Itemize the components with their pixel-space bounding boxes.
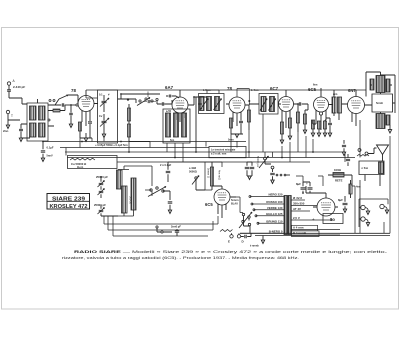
- hatched resistor right: [349, 184, 352, 194]
- svg-text:78: 78: [71, 88, 76, 93]
- V4 ground row: [280, 140, 283, 143]
- coupling cap to 6C5: [299, 102, 300, 105]
- cap column right 2: [346, 159, 350, 160]
- svg-text:25000 pF: 25000 pF: [96, 175, 108, 179]
- speaker wires: [366, 72, 395, 114]
- switch S3: [195, 177, 197, 179]
- IF T1 middle winding: [207, 97, 212, 111]
- V3 pin wires: [233, 105, 249, 126]
- svg-text:2-440 pF: 2-440 pF: [13, 85, 25, 89]
- svg-text:BRUNO 110: BRUNO 110: [266, 219, 282, 223]
- V5 cathode resistor: [311, 120, 314, 129]
- tube V6 6N7: [348, 97, 365, 114]
- tube V2 6A7: [172, 97, 188, 113]
- IF T1 trimmer arrows: [200, 99, 208, 111]
- svg-text:AT 4V: AT 4V: [293, 207, 301, 211]
- svg-text:6C5: 6C5: [205, 202, 213, 207]
- model label box: [47, 194, 90, 210]
- grid terminal on V1: [76, 104, 78, 106]
- svg-text:2nn0 pF: 2nn0 pF: [171, 225, 181, 229]
- cap column right 1: [342, 145, 346, 146]
- screen resistor R5: [247, 110, 250, 122]
- svg-text:Cv: Cv: [99, 114, 103, 118]
- IF T2 trimmer arrows: [260, 99, 267, 111]
- V7 wires: [212, 186, 236, 218]
- junction blob: [127, 98, 129, 100]
- svg-text:a-50: a-50: [166, 110, 172, 113]
- svg-text:6C5: 6C5: [308, 87, 317, 92]
- band coil with core: [131, 178, 136, 210]
- capacitor to ground mid: [168, 202, 173, 203]
- tube V5 6C5: [314, 97, 329, 112]
- voltage selector contacts: [242, 213, 244, 215]
- wire bus to 6A7: [118, 94, 161, 103]
- terminal E: [230, 235, 233, 238]
- svg-text:5nnn: 5nnn: [228, 139, 234, 142]
- return wire U3: [113, 216, 208, 236]
- band switch S1 arrow: [59, 95, 68, 99]
- filter caps pair: [245, 167, 250, 168]
- svg-text:+: +: [306, 182, 308, 186]
- speaker bottom winding: [376, 114, 385, 129]
- wire gang to tube: [86, 96, 98, 99]
- speaker lug lower-right: [386, 115, 390, 125]
- right risers: [352, 158, 390, 234]
- svg-text:100Ω: 100Ω: [334, 168, 342, 172]
- tube V8 80 rectifier: [317, 198, 335, 216]
- V5 second resistor: [317, 121, 320, 129]
- V1 cathode resistor: [78, 122, 81, 131]
- V5 pin wires: [316, 88, 333, 130]
- coil block outline: [27, 103, 48, 141]
- AVC bus line 1: [43, 141, 246, 143]
- B+ bus line 3: [65, 151, 345, 153]
- capacitor C10: [166, 171, 171, 172]
- terminal D: [237, 235, 240, 238]
- IF T1 secondary winding: [215, 97, 220, 111]
- output transformer side lug left: [370, 79, 374, 90]
- output transformer side lug right: [386, 79, 390, 92]
- trimmer capacitor lower: [99, 210, 104, 211]
- V1 ground: [84, 138, 87, 141]
- svg-text:T: T: [11, 114, 13, 118]
- svg-text:+: +: [312, 217, 315, 222]
- V5 cathode cap: [328, 123, 332, 124]
- svg-text:RADIO SIARE — Modelli « Siar: RADIO SIARE — Modelli « Siare 239 » e « …: [74, 249, 388, 254]
- V5 grid leak resistor: [303, 114, 306, 124]
- svg-text:5000Ω: 5000Ω: [189, 170, 197, 174]
- svg-text:0.1μF: 0.1μF: [47, 146, 54, 150]
- svg-text:6N7: 6N7: [348, 88, 356, 93]
- svg-text:a 2 n alt. nnn: a 2 n alt. nnn: [211, 153, 227, 156]
- band switch arm: [150, 189, 152, 191]
- bus vertical taps: [66, 114, 390, 162]
- V4 avc resistor: [288, 118, 291, 128]
- svg-text:6A7: 6A7: [165, 85, 174, 90]
- V3 cathode cap: [239, 121, 243, 122]
- interruttore zigzag: [220, 230, 233, 232]
- pickup box hatch: [379, 162, 384, 174]
- svg-text:n 5nn: n 5nn: [362, 167, 369, 170]
- V1 cathode bypass cap: [88, 122, 92, 123]
- tuning gang shield box: [98, 90, 118, 143]
- return wire U2: [108, 216, 213, 230]
- mains cap: [245, 235, 246, 238]
- svg-text:25000 pF: 25000 pF: [94, 203, 106, 207]
- pickup terminal P2: [361, 217, 365, 221]
- pickup terminal P3: [380, 204, 384, 208]
- series cap ticks on mixer line: [148, 100, 150, 103]
- svg-text:rizzatore, valvola a tubo a ra: rizzatore, valvola a tubo a raggi catodi…: [62, 255, 299, 260]
- IF transformer T2 box: [259, 94, 278, 115]
- V1 top cap to rail: [85, 90, 87, 96]
- antenna terminal A: [7, 82, 10, 85]
- svg-text:ROSSO 160: ROSSO 160: [266, 200, 282, 204]
- svg-text:E: E: [228, 240, 230, 244]
- IF T2 secondary winding: [270, 97, 275, 112]
- pickup tone arm triangle: [377, 145, 389, 155]
- contact row: [276, 174, 278, 176]
- svg-text:6nn: 6nn: [313, 84, 318, 87]
- pickup squiggle: [357, 155, 369, 157]
- pickup wires down: [365, 175, 380, 187]
- electrolytic 8uF no.3: [308, 188, 313, 189]
- resistor R2: [127, 108, 130, 121]
- svg-text:BLAU: BLAU: [231, 203, 238, 206]
- contact pair bottom: [156, 226, 158, 228]
- junction dots on bus: [81, 141, 83, 143]
- svg-text:SIARE 239: SIARE 239: [52, 196, 85, 202]
- ground arrow below T: [7, 120, 9, 125]
- resistor R3: [127, 124, 130, 137]
- svg-text:è nrnnb: è nrnnb: [250, 245, 259, 248]
- V8 wires: [306, 186, 338, 207]
- antenna coil L1 lower windings: [30, 123, 37, 137]
- svg-text:50000 pot: 50000 pot: [256, 156, 259, 167]
- pickup connection circles: [358, 149, 361, 152]
- oscillator coil windings: [166, 113, 171, 137]
- svg-text:8μF: 8μF: [338, 198, 343, 202]
- svg-text:KROSLEY 472: KROSLEY 472: [50, 204, 88, 210]
- V5 third resistor: [323, 121, 326, 129]
- IF T2 wires: [249, 103, 281, 105]
- tube V4 6C7: [279, 97, 294, 112]
- oscillator grid cap: [169, 95, 170, 98]
- bus line 5: [117, 161, 310, 163]
- interstage transformer T3 primary: [332, 97, 336, 113]
- svg-text:0.1: 0.1: [99, 93, 103, 97]
- resistor above eye tube: [210, 167, 213, 186]
- tube V3 78: [229, 97, 245, 113]
- svg-text:B-NERO 0: B-NERO 0: [269, 229, 283, 233]
- svg-text:A 4 nnn: A 4 nnn: [293, 226, 304, 230]
- wires coil to switch: [22, 99, 55, 126]
- svg-text:Ω+nn: Ω+nn: [77, 166, 84, 169]
- tone capacitor: [270, 173, 275, 174]
- variable capacitor CV1: [102, 101, 107, 102]
- HT bus line lower 1: [240, 232, 390, 234]
- tube V1 78: [78, 96, 94, 112]
- V4 pin wires: [282, 90, 298, 128]
- svg-text:2nn: 2nn: [3, 129, 9, 133]
- svg-text:NERO 220: NERO 220: [269, 192, 283, 196]
- band switch S1 contacts: [49, 100, 51, 102]
- IF T1 wires: [194, 97, 229, 104]
- svg-text:4nn nnΩ: 4nn nnΩ: [218, 170, 222, 180]
- V2 pin wires: [176, 90, 196, 152]
- volume potentiometer box: [68, 156, 118, 169]
- switch contacts S2: [139, 100, 141, 102]
- trimmer capacitor upper pair: [99, 183, 104, 184]
- svg-text:5nnΩ: 5nnΩ: [376, 101, 383, 105]
- grid leak cap to ground: [69, 113, 73, 114]
- note box outline: [209, 147, 246, 158]
- small resistor R1: [53, 109, 60, 112]
- svg-text:8o: 8o: [330, 217, 335, 222]
- V5 ground arrow row: [311, 133, 314, 136]
- V3 plate top loop: [237, 89, 249, 106]
- svg-text:5nnV: 5nnV: [47, 155, 53, 158]
- terminal T: [6, 110, 9, 113]
- svg-text:Le tensioni misurate: Le tensioni misurate: [211, 149, 236, 152]
- V1 pin wires: [82, 104, 98, 127]
- label 80 box: [323, 214, 343, 224]
- padder capacitor C3: [162, 102, 163, 105]
- middle junction wires: [118, 166, 152, 216]
- IF T1 primary winding: [200, 97, 205, 111]
- power transformer core: [284, 196, 287, 235]
- interstage transformer T3 secondary: [338, 97, 342, 113]
- V3 cathode resistor: [229, 118, 232, 128]
- bus line 2: [60, 147, 209, 149]
- vertical drop wires: [168, 152, 323, 213]
- IF transformer T1 box: [199, 94, 225, 114]
- bus line 4: [67, 157, 355, 159]
- oscillator coil box outline: [163, 109, 190, 143]
- mains switch wires: [244, 216, 251, 233]
- svg-text:VERDE 130: VERDE 130: [267, 206, 283, 210]
- svg-text:≡ 0.05μF 550Ω ≡ 0.1μF 5nn: ≡ 0.05μF 550Ω ≡ 0.1μF 5nn: [95, 143, 128, 147]
- svg-text:8μF: 8μF: [296, 182, 301, 186]
- HT bus line lower 2: [255, 235, 390, 237]
- svg-text:a 4Ω2: a 4Ω2: [189, 166, 197, 170]
- tone control contacts: [264, 157, 267, 160]
- coupling capacitor C1: [48, 104, 61, 106]
- IF T2 primary winding: [261, 97, 266, 112]
- V5 grid terminal: [319, 112, 322, 115]
- svg-text:2 n 0.1μF: 2 n 0.1μF: [160, 163, 172, 167]
- resistor R8 vertical: [296, 112, 299, 123]
- speaker ground arrow: [389, 125, 391, 130]
- ground arrow bottom center: [262, 236, 264, 241]
- antenna coil L1 upper windings: [30, 106, 37, 120]
- oscillator padding coil lower tall: [122, 186, 128, 213]
- svg-text:2,5 V: 2,5 V: [293, 216, 300, 220]
- svg-text:GIALLO 125: GIALLO 125: [266, 212, 283, 216]
- variable capacitor CV2: [102, 121, 107, 122]
- tube V7 6C5 eye: [214, 189, 230, 205]
- pickup device box: [359, 161, 384, 175]
- V6 pin wires: [352, 90, 369, 126]
- terminal wiring box: [359, 199, 388, 227]
- svg-text:350+350: 350+350: [293, 202, 305, 206]
- svg-text:RETE: RETE: [335, 179, 343, 183]
- V4 diode load resistor: [280, 122, 283, 134]
- svg-text:5nnnn Ω: 5nnnn Ω: [207, 168, 211, 178]
- output transformer top winding: [376, 76, 385, 93]
- return wire U1: [104, 216, 218, 224]
- svg-text:Ø 4V-6: Ø 4V-6: [293, 196, 302, 200]
- potentiometer zigzag: [70, 158, 95, 160]
- oscillator padding coil upper: [117, 170, 123, 189]
- T3 wires: [334, 90, 348, 120]
- top supply rail: [86, 89, 366, 91]
- speaker field coil box: [372, 94, 393, 112]
- pickup terminal P1: [361, 205, 365, 209]
